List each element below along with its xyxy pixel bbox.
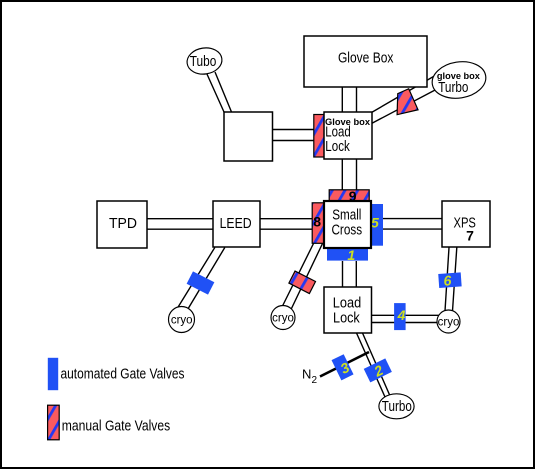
Tubo pump oval [185,46,223,77]
automated valve 5 [371,204,383,246]
Load Lock chamber [324,287,372,333]
svg-text:Cross: Cross [331,223,362,239]
wire: TPD to LEED (horizontal double line) [147,219,213,230]
svg-text:Lock: Lock [333,311,360,327]
automated valve 6 [438,272,462,290]
svg-text:Load: Load [333,295,361,311]
svg-text:cryo: cryo [171,313,193,327]
wire: valve 5 to XPS (horizontal double line) [383,219,442,230]
wire: valve 1 to Load Lock (vertical double line) [343,261,357,287]
middle cryo pump circle [271,306,295,330]
manual valve on glove box load lock left [314,115,324,158]
automated valve 2 [364,358,393,383]
wire: Load Lock to right cryo (horizontal double line) [372,315,442,322]
wire: LEED to valve 8 (horizontal double line) [260,219,312,230]
svg-text:N: N [302,367,311,382]
automated valve 4 [394,303,406,330]
svg-text:cryo: cryo [438,315,460,329]
wire: Glove box Load Lock to valve 9 (vertical double line) [342,159,356,190]
wire: Glove box Load Lock to glove box Turbo (diagonal double line) [372,77,438,124]
manual valve on middle cryo line [289,271,316,293]
Turbo pump oval [379,394,414,419]
svg-text:5: 5 [371,214,379,230]
wire: Load Lock to Turbo (diagonal double line) [357,333,391,397]
svg-text:8: 8 [313,214,321,230]
svg-text:4: 4 [397,307,406,323]
wire: valve 8 to middle cryo (diagonal double line) [282,244,323,310]
manual valve 8 [312,203,324,244]
wire: Glove Box to Glove box Load Lock (vertical double line) [342,87,356,112]
svg-text:Turbo: Turbo [438,80,468,96]
svg-text:LEED: LEED [220,216,252,232]
wire: XPS down to right cryo (slanted double line) [445,248,457,312]
labels glove box Turbo [437,71,480,96]
wire: N2 gas line (thick) [320,352,369,377]
left cryo pump circle [169,307,195,333]
wire: LEED to left cryo (diagonal double line) [178,248,225,311]
node N2 label [302,367,318,387]
automated valve on LEED cryo line [187,271,215,294]
ante chamber box [224,112,273,161]
labels Load Lock [333,295,361,326]
right cryo pump circle [437,310,460,333]
wire: Tubo oval to ante box (diagonal double line) [207,72,232,112]
TPD chamber [97,201,147,248]
Glove Box chamber [304,36,427,87]
Small Cross chamber [324,201,371,248]
svg-text:automated Gate Valves: automated Gate Valves [61,367,185,383]
glove box Turbo pump oval [430,58,489,102]
manual valve 9 [329,188,369,204]
XPS chamber [442,201,490,247]
svg-text:1: 1 [347,247,355,263]
svg-text:Small: Small [332,208,361,224]
labels glove box load lock [325,117,370,155]
manual valve on glove box turbo line [397,89,418,115]
legend automated gate valve swatch [48,358,58,390]
svg-text:Turbo: Turbo [382,399,412,415]
legend manual gate valve swatch [48,405,60,440]
automated valve 1 [327,247,368,263]
svg-text:6: 6 [443,272,452,289]
svg-text:Glove Box: Glove Box [338,51,394,67]
svg-text:2: 2 [312,375,318,386]
svg-text:Lock: Lock [325,139,350,155]
svg-text:Tubo: Tubo [190,54,217,70]
svg-text:7: 7 [466,228,474,244]
svg-text:TPD: TPD [109,216,137,232]
wire: ante box to glove box load lock valve (horizontal double line) [273,130,315,141]
label Small Cross [331,208,362,239]
LEED chamber [213,201,260,247]
glove box load lock chamber [324,112,372,159]
svg-text:cryo: cryo [272,311,294,325]
svg-text:manual Gate Valves: manual Gate Valves [62,419,170,435]
automated valve 3 [332,354,354,380]
